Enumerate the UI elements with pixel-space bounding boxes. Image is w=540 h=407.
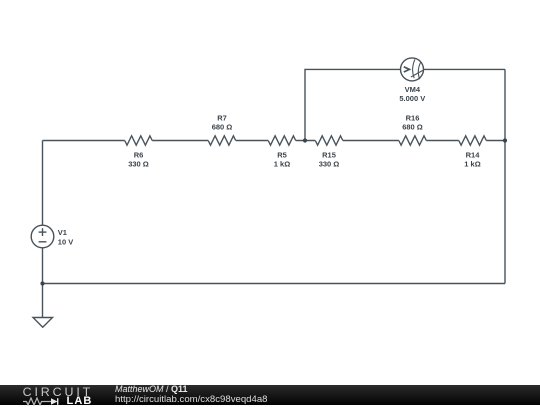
resistor R5 — [268, 136, 296, 145]
label R14 value — [464, 150, 480, 168]
wire — [486, 140, 505, 142]
resistor R15 — [315, 136, 343, 145]
wire — [42, 248, 44, 284]
svg-text:R6: R6 — [134, 150, 144, 159]
label R7 value — [212, 114, 233, 132]
svg-text:R5: R5 — [277, 150, 287, 159]
svg-text:VM4: VM4 — [405, 85, 421, 94]
node junction — [40, 281, 44, 285]
wire — [42, 284, 44, 318]
label R16 value — [402, 114, 423, 132]
svg-text:R16: R16 — [406, 114, 420, 123]
resistor R7 — [208, 136, 236, 145]
svg-text:5.000 V: 5.000 V — [399, 94, 425, 103]
label V1 value — [58, 228, 73, 246]
voltage source V1 — [31, 225, 54, 248]
wire — [305, 69, 401, 140]
label VM4 value — [399, 85, 425, 103]
wire — [426, 140, 459, 142]
wire — [236, 140, 269, 142]
node junction — [303, 138, 307, 142]
wire — [296, 140, 316, 142]
svg-text:R14: R14 — [466, 150, 481, 159]
wire — [424, 68, 506, 70]
wire — [43, 283, 506, 285]
svg-text:1 kΩ: 1 kΩ — [274, 159, 290, 168]
wire — [504, 69, 506, 283]
wire — [42, 141, 44, 226]
diode logo — [51, 398, 58, 405]
svg-text:680 Ω: 680 Ω — [402, 123, 423, 132]
resistor R16 — [399, 136, 427, 145]
svg-text:R15: R15 — [322, 150, 336, 159]
svg-text:680 Ω: 680 Ω — [212, 123, 233, 132]
resistor R14 — [459, 136, 487, 145]
wire — [343, 140, 399, 142]
ground — [33, 318, 53, 328]
wire — [152, 140, 208, 142]
node junction — [503, 138, 507, 142]
svg-text:330 Ω: 330 Ω — [128, 159, 149, 168]
svg-text:R7: R7 — [217, 114, 227, 123]
svg-text:10 V: 10 V — [58, 237, 73, 246]
label R15 value — [319, 150, 340, 168]
voltmeter VM4 — [401, 58, 424, 81]
label R6 value — [128, 150, 149, 168]
resistor R6 — [125, 136, 153, 145]
label R5 value — [274, 150, 290, 168]
wire — [43, 140, 125, 142]
svg-text:V1: V1 — [58, 228, 67, 237]
svg-text:330 Ω: 330 Ω — [319, 159, 340, 168]
svg-text:1 kΩ: 1 kΩ — [464, 159, 480, 168]
wire logo squiggle — [23, 398, 51, 405]
